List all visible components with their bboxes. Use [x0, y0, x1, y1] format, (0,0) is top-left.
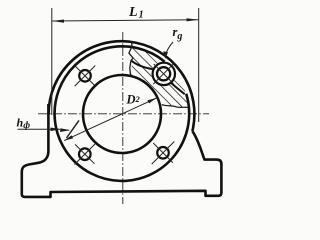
L1 dimension line: [52, 20, 198, 21]
r_g leader arrow: [163, 51, 168, 59]
centermark cross of bottom-left bolt hole: [75, 144, 96, 165]
break line top (jagged edge of broken-out section): [129, 42, 133, 76]
web line left of boss: [131, 60, 153, 69]
L1 extension line left: [51, 8, 53, 115]
boss knockout (white fill under boss ring): [151, 62, 176, 87]
L1 arrow right: [187, 18, 199, 21]
D2 arrow upper: [148, 98, 157, 103]
web line right of boss: [170, 82, 184, 94]
short tick line near lower D2 arrow: [67, 120, 80, 138]
outer housing circle arc: [49, 41, 195, 131]
L1 extension line right: [198, 8, 200, 122]
horizontal centerline: [38, 113, 209, 115]
r_g leader line: [165, 42, 173, 57]
bolt hole top-right: [157, 67, 170, 80]
centermark cross of top-left bolt hole: [75, 66, 96, 87]
D2 arrow lower: [64, 135, 73, 140]
bolt hole top-left: [79, 70, 91, 82]
D2 dimension line (diagonal diameter): [64, 98, 156, 141]
centermark cross of top-right bolt hole: [153, 63, 174, 84]
boss ring around top-right bolt hole: [153, 63, 175, 85]
bolt hole bottom-right: [157, 147, 169, 159]
break line right (wavy edge of broken-out section): [162, 105, 189, 108]
h_f leader second segment: [61, 128, 69, 131]
h_f leader line: [18, 128, 61, 130]
section hatching (broken-out section of flange): [110, 35, 220, 120]
vertical centerline: [122, 32, 124, 204]
L1 arrow left: [52, 20, 64, 23]
housing base profile: [22, 104, 222, 197]
bore circle D2: [83, 75, 161, 153]
flange circle (second circle, gap behind boss): [55, 46, 190, 181]
bolt hole bottom-left: [79, 148, 91, 160]
h_f arrow first: [51, 128, 62, 132]
centermark cross of bottom-right bolt hole: [152, 142, 175, 165]
h_f arrow second: [60, 128, 70, 132]
